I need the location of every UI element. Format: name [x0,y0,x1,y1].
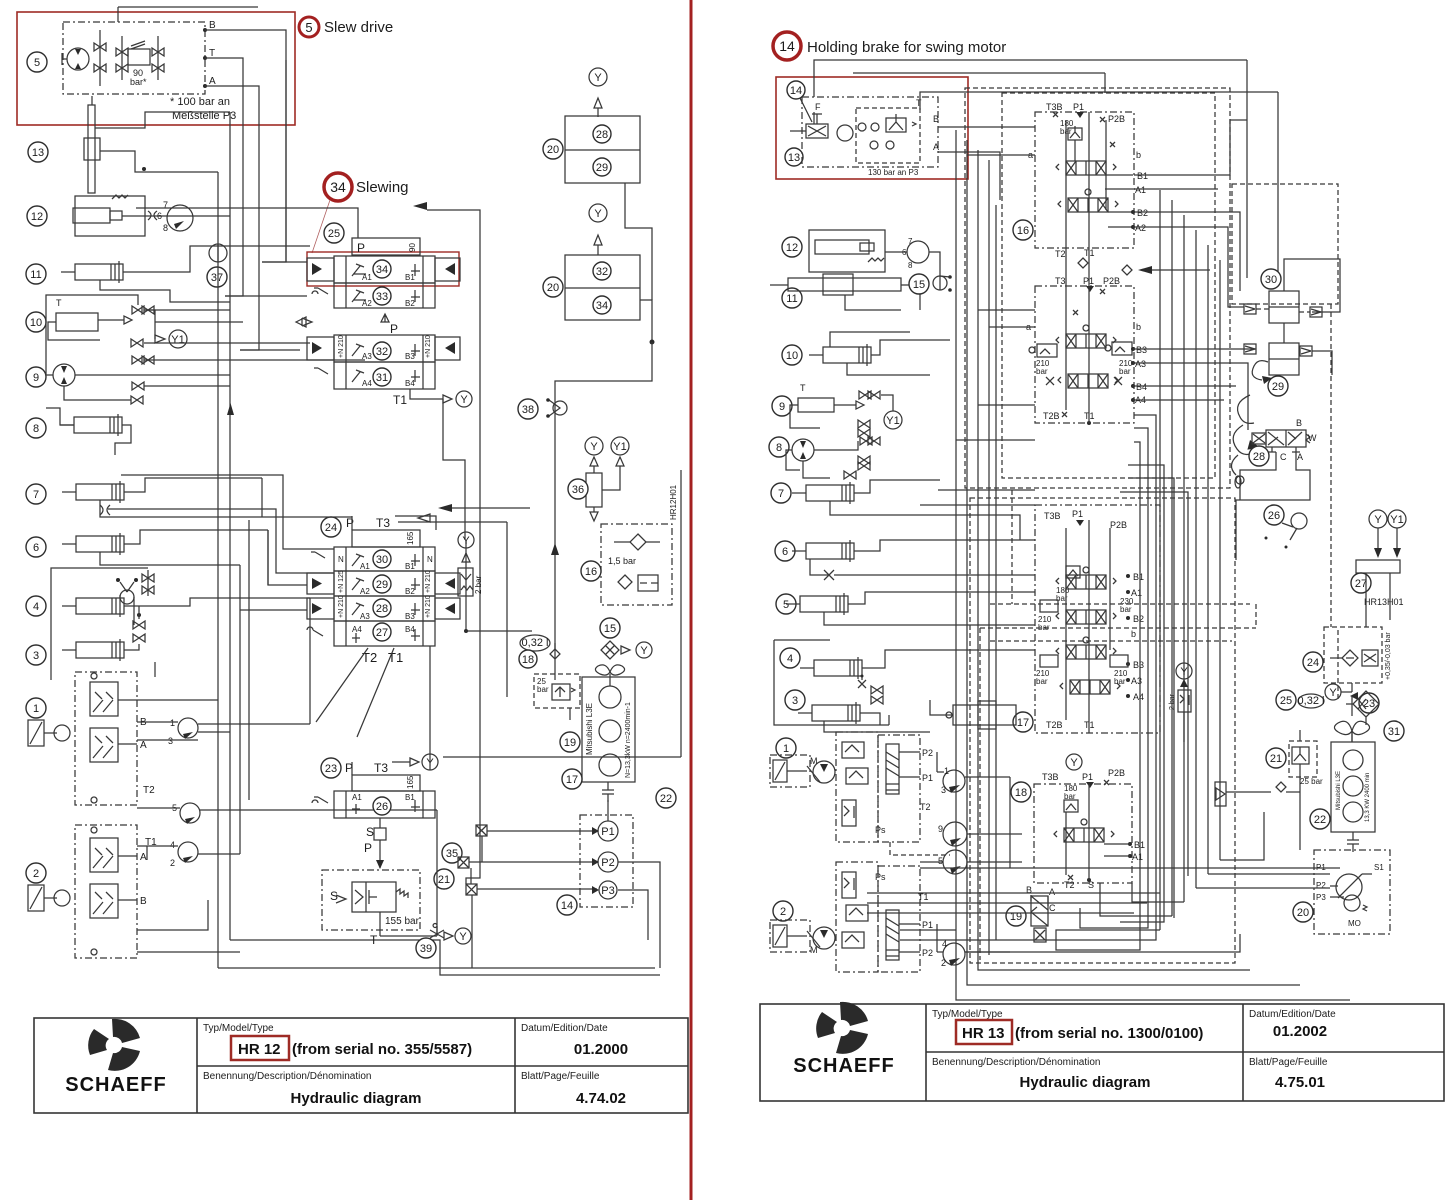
svg-text:36: 36 [572,484,584,496]
circled 21 [434,869,454,889]
T2 Ps labels [875,802,950,855]
svg-text:27: 27 [376,627,388,639]
svg-text:16: 16 [1017,225,1029,237]
slew brake relief block [116,36,164,80]
circled 13 [28,142,48,162]
svg-text:17: 17 [566,774,578,786]
svg-text:39: 39 [420,943,432,955]
svg-text:Y: Y [459,931,467,943]
circled 39 [380,924,471,959]
pilot handle 1 right [770,755,810,787]
svg-text:A1: A1 [1132,852,1143,862]
svg-text:15: 15 [913,279,925,291]
svg-text:B2: B2 [1133,614,1144,624]
svg-text:12: 12 [31,211,43,223]
circled 38 vent [518,398,567,419]
circled 28 right page [1249,446,1269,466]
red highlight box slew drive [17,12,295,125]
svg-text:B1: B1 [1133,572,1144,582]
circled 20 right page [1293,902,1313,922]
cylinder 12 right [809,230,885,272]
svg-text:Mitsubishi L3E: Mitsubishi L3E [585,703,594,755]
holding brake assembly [790,97,939,177]
fan blades [1334,721,1369,742]
ports pump1 right [899,748,937,783]
svg-text:35: 35 [446,848,458,860]
svg-text:P: P [390,322,398,336]
circled 20 left of box [543,139,563,159]
svg-text:B1: B1 [405,793,415,802]
circled 12 right page [782,237,802,257]
circled 17 [562,769,582,789]
circled 16 [581,561,601,581]
wire B to valve 34 [205,30,286,262]
circled 11 right page [782,288,802,308]
internal verticals group17 [1066,520,1110,733]
valve row 30 [311,547,435,571]
side relief right 210 bar [1105,342,1133,376]
pump circle 4-2 [137,840,240,868]
accumulator cylinder above 17 [930,700,1016,729]
svg-text:1: 1 [170,718,175,728]
svg-text:HR12H01: HR12H01 [669,484,678,520]
svg-text:17: 17 [1017,717,1029,729]
svg-text:37: 37 [211,272,223,284]
circled 2 right page [773,901,793,921]
slew hydraulic motor [62,48,89,70]
svg-text:T2: T2 [920,802,931,812]
svg-text:Y1: Y1 [171,334,184,346]
circled 36 [568,479,588,499]
relief 21 [1289,730,1323,790]
svg-text:bar: bar [1119,367,1131,376]
svg-text:Datum/Edition/Date: Datum/Edition/Date [521,1023,608,1034]
flexible hoses [1231,395,1261,488]
circled 1 right page [776,738,796,758]
valve row 28 [307,595,460,621]
circled 13 inner [785,148,803,166]
svg-text:P2B: P2B [1108,768,1125,778]
circled 12 [27,206,47,226]
node B port 1 [140,717,155,796]
svg-text:11: 11 [30,269,41,281]
circled 24 [321,517,341,537]
svg-text:Y: Y [1070,757,1078,769]
svg-text:T3B: T3B [1042,772,1059,782]
svg-text:5: 5 [783,599,789,611]
svg-text:Y1: Y1 [1390,514,1403,526]
spool D group16 lower [1046,374,1122,388]
valve row 34 [307,256,460,283]
cylinder 11 [61,246,310,302]
cell Datum [521,1023,628,1058]
gauge Y and 23 [1325,684,1358,700]
relief 180 bar g18 [1064,784,1078,812]
svg-text:Typ/Model/Type: Typ/Model/Type [203,1023,274,1034]
svg-text:(from serial no. 355/5587): (from serial no. 355/5587) [292,1041,472,1058]
circled 26 right page [1264,505,1307,549]
svg-text:32: 32 [596,266,608,278]
labels T3 P1 P2B lower [1055,276,1120,294]
ports B4 A4 [1131,382,1147,405]
svg-text:+N 210: +N 210 [425,595,432,618]
svg-text:P1: P1 [922,920,933,930]
pilot handle 2 right [770,920,810,952]
svg-text:A1: A1 [352,793,362,802]
svg-text:B4: B4 [405,625,415,634]
svg-text:Ps: Ps [875,825,886,835]
check valves slew motor [94,30,106,86]
internal vertical lines group16 [1066,112,1106,423]
svg-text:20: 20 [547,144,559,156]
svg-text:3: 3 [941,785,946,795]
svg-text:A4: A4 [362,379,372,388]
circled 15 right page [909,274,952,294]
wire T down [205,58,243,296]
coupling 22-20 [1347,832,1359,852]
ports group 18 [1104,840,1145,862]
labels T3B P1 P2B group 17 [1044,509,1127,530]
svg-text:Blatt/Page/Feuille: Blatt/Page/Feuille [1249,1057,1328,1068]
svg-text:19: 19 [564,737,576,749]
port labels 2 [140,837,157,907]
svg-text:bar*: bar* [130,77,147,87]
svg-text:T2B: T2B [1046,720,1063,730]
svg-text:F: F [815,102,821,112]
wire slew B to slewing block [225,60,307,350]
svg-text:A2: A2 [360,587,370,596]
main valve block 2 dashdot [836,862,920,972]
svg-text:0,32 l: 0,32 l [1298,695,1325,707]
ports B3 A3 [1131,345,1147,369]
red highlight box holding brake [776,77,968,179]
svg-text:P1: P1 [1072,509,1083,519]
junction boxes to pumps [458,825,487,895]
svg-text:Y: Y [594,208,602,220]
svg-text:01.2000: 01.2000 [574,1041,628,1058]
cell Benennung [203,1071,421,1107]
long wires center [430,399,532,770]
pump circle 1-3 [137,718,310,746]
Y1 circle right page [881,395,902,429]
circled 27 [373,623,391,641]
control block 1 dashdot [75,672,137,805]
relief 180 bar upper [1060,119,1082,140]
circled 34 in box [593,296,611,314]
svg-text:P1: P1 [922,773,933,783]
svg-text:26: 26 [1268,510,1280,522]
svg-text:T3B: T3B [1044,511,1061,521]
svg-text:29: 29 [596,162,608,174]
svg-text:1: 1 [783,743,789,755]
circled 7 right page [771,483,791,503]
svg-text:Holding brake for swing motor: Holding brake for swing motor [807,39,1006,56]
svg-text:A1: A1 [1135,185,1146,195]
svg-text:5: 5 [34,57,40,69]
svg-text:Y1: Y1 [886,415,899,427]
svg-text:Y: Y [594,72,602,84]
svg-text:28: 28 [1253,451,1265,463]
S port under 26 [366,818,386,840]
svg-text:A1: A1 [360,562,370,571]
inline check valve right page [1215,782,1300,806]
circled 22 [656,788,676,808]
svg-text:Y: Y [462,535,470,547]
svg-text:Y: Y [640,645,648,657]
circled 25 [324,223,344,243]
svg-text:Mitsubishi L3E: Mitsubishi L3E [1336,771,1342,810]
horizontal tie wires to right column [1056,812,1330,942]
wire from accu box down [551,183,655,680]
svg-text:bar: bar [1114,677,1126,686]
svg-text:B4: B4 [1136,382,1147,392]
circled 27 right page [1351,573,1371,593]
svg-text:28: 28 [596,129,608,141]
wires 28 to 20 [1236,452,1352,850]
svg-text:24: 24 [1307,657,1319,669]
valve row 27 [307,621,435,646]
svg-text:30: 30 [376,554,388,566]
svg-text:9: 9 [938,824,943,834]
bus wires right of group16 [1160,190,1220,930]
pump circle 5 [920,850,1010,874]
svg-text:+N 210: +N 210 [338,335,345,358]
svg-text:B2: B2 [1137,208,1148,218]
cell Typ/Model/Type [203,1023,472,1060]
svg-text:P1: P1 [601,826,614,838]
svg-text:28: 28 [376,603,388,615]
wires rows 24 to left [240,478,307,610]
circled 4 right page [780,648,800,668]
svg-text:T3B: T3B [1046,102,1063,112]
svg-text:Blatt/Page/Feuille: Blatt/Page/Feuille [521,1071,600,1082]
pump M 2 right [807,927,835,955]
svg-text:38: 38 [522,404,534,416]
svg-text:b: b [1136,322,1141,332]
svg-text:7: 7 [33,489,39,501]
side connectors box29 [1244,344,1312,356]
svg-text:N: N [338,555,344,564]
valve block 23 header [345,754,438,791]
circled 19 right page [1006,906,1026,926]
labels T3B P1 P2B upper [1046,102,1125,124]
relief valve 155 bar box [322,870,420,947]
shutoff valves right column [844,391,880,479]
red highlight valve row 34 [307,252,459,286]
side reliefs group 17 [1036,600,1128,686]
side connectors box30 [1244,304,1322,317]
circled 30 [373,550,391,568]
svg-text:Y: Y [1374,514,1382,526]
svg-text:B2: B2 [405,299,415,308]
svg-text:15: 15 [604,623,616,635]
circled 24 right page [1303,652,1323,672]
svg-text:130 bar an P3: 130 bar an P3 [868,168,919,177]
circled 29 [373,575,391,593]
cylinder 4 group frame [51,568,148,680]
return arrow top of block 25 [413,202,480,395]
valve row 31 [314,362,435,389]
ports pump2 right [875,872,933,958]
accumulator box 32-34 [565,255,640,320]
svg-text:SCHAEFF: SCHAEFF [793,1055,894,1077]
cylinder 3 right [798,702,880,732]
svg-text:Slew drive: Slew drive [324,19,393,36]
svg-text:9: 9 [33,372,39,384]
engine fan left page [595,665,624,686]
svg-text:Typ/Model/Type: Typ/Model/Type [932,1009,1003,1020]
svg-text:Hydraulic diagram: Hydraulic diagram [1020,1074,1151,1091]
svg-text:20: 20 [1297,907,1309,919]
circled 19 [560,732,580,752]
SCHAEFF logo left [65,1019,166,1096]
svg-text:1,5 bar: 1,5 bar [608,556,636,566]
valve group 18 box [1034,784,1132,883]
mid horizontals linking groups [880,490,1035,732]
svg-text:22: 22 [1314,814,1326,826]
svg-text:P3: P3 [601,885,614,897]
svg-text:+0,35/-0,03 bar: +0,35/-0,03 bar [1385,632,1392,680]
circled 2 [26,863,46,883]
svg-text:Y1: Y1 [613,441,626,453]
svg-text:14: 14 [779,38,795,54]
circled 7 [26,484,46,504]
lower left wire loops right page [900,890,1174,950]
cell Typ right [932,1009,1203,1044]
svg-text:18: 18 [1015,787,1027,799]
cylinder 10 with spear [48,298,132,340]
svg-text:4.74.02: 4.74.02 [576,1090,626,1107]
svg-text:P2: P2 [922,748,933,758]
circled 10 [26,312,46,332]
P arrow down to relief [364,840,384,869]
svg-text:P2: P2 [1316,881,1326,890]
svg-text:34: 34 [330,179,346,195]
svg-text:2 bar: 2 bar [1169,693,1176,710]
filter group 24 [1324,627,1392,683]
cylinder 8 [46,408,131,455]
solenoid Y1 [145,310,187,348]
circled 6 [26,537,46,557]
svg-text:2: 2 [941,958,946,968]
right column: circled 30 [1261,269,1281,289]
cylinder 6 right [792,540,950,580]
svg-text:bar: bar [1120,605,1132,614]
circled 18 right page [1011,782,1031,802]
circled 15 breather [600,618,652,659]
svg-text:1: 1 [944,766,949,776]
circled 28 in box [593,125,611,143]
svg-text:25 bar: 25 bar [1300,777,1323,786]
svg-text:13: 13 [788,152,800,164]
svg-text:23: 23 [325,763,337,775]
svg-text:T: T [800,383,806,393]
Y gauge top right [589,68,607,117]
valve row 26 [312,791,435,818]
cylinder 12 [73,195,230,236]
valve group 16 lower dashdot box [1035,286,1134,423]
circled 18 [519,643,560,668]
circled 28 [373,599,391,617]
svg-text:8: 8 [908,261,913,270]
svg-text:01.2002: 01.2002 [1273,1023,1327,1040]
svg-text:7: 7 [908,237,913,246]
frame label HR13H01 [1364,597,1404,607]
spool group 18 [1054,819,1114,842]
svg-text:A2: A2 [1135,223,1146,233]
svg-text:P1: P1 [1073,102,1084,112]
svg-text:T: T [56,298,62,308]
svg-text:N: N [427,555,433,564]
cylinder 9 right with spear [790,383,864,428]
valve block 24 header [262,516,436,547]
svg-text:8: 8 [163,223,168,233]
svg-text:5: 5 [305,20,312,35]
svg-text:bar: bar [1036,677,1048,686]
svg-text:Y: Y [1329,687,1337,699]
circled 22 right page [1310,809,1330,829]
svg-text:26: 26 [376,801,388,813]
circled 14 [557,895,577,915]
svg-text:P2B: P2B [1103,276,1120,286]
svg-text:T1: T1 [393,393,407,407]
title block HR12 [34,1018,688,1113]
shutoff valves column [131,306,154,404]
valve group 16 upper dashdot box [1035,112,1134,248]
cylinder 6 [62,530,268,565]
circled 34 in row [373,260,391,278]
svg-text:34: 34 [376,264,388,276]
svg-text:2 bar: 2 bar [474,575,483,594]
ports B2 A2 [1108,208,1148,233]
wires 27 manifold down [1352,573,1390,692]
svg-text:A: A [140,740,147,751]
svg-text:W: W [1308,433,1317,443]
svg-text:P2B: P2B [1108,114,1125,124]
svg-text:6: 6 [157,211,162,221]
svg-text:P2B: P2B [1110,520,1127,530]
svg-text:P3: P3 [1316,893,1326,902]
svg-text:4: 4 [787,653,793,665]
circled 11 [26,264,46,284]
svg-text:29: 29 [376,579,388,591]
throttle pump 7-6-8 right [885,237,940,290]
circled 31 [373,368,391,386]
circled 23 [321,758,341,778]
circled 9 right page [772,396,792,416]
circled 6 right page [775,541,795,561]
cylinder 5 right [786,592,940,625]
svg-text:13: 13 [32,147,44,159]
svg-text:14: 14 [561,900,573,912]
svg-text:2: 2 [33,868,39,880]
svg-text:(from serial no. 1300/0100): (from serial no. 1300/0100) [1015,1025,1203,1042]
circled 35 and tie-ins [442,843,462,863]
svg-text:4.75.01: 4.75.01 [1275,1074,1325,1091]
circled 32 [373,342,391,360]
circled 14 inner [787,81,812,122]
svg-text:32: 32 [376,346,388,358]
svg-text:27: 27 [1355,578,1367,590]
valve marks 4 [871,686,883,704]
circled 17 right page [1013,712,1033,732]
svg-text:2: 2 [170,858,175,868]
svg-text:T: T [916,98,922,108]
svg-text:P: P [357,241,365,255]
svg-text:P1: P1 [1082,772,1093,782]
svg-text:A2: A2 [362,299,372,308]
circled 23 right page [1359,693,1379,713]
